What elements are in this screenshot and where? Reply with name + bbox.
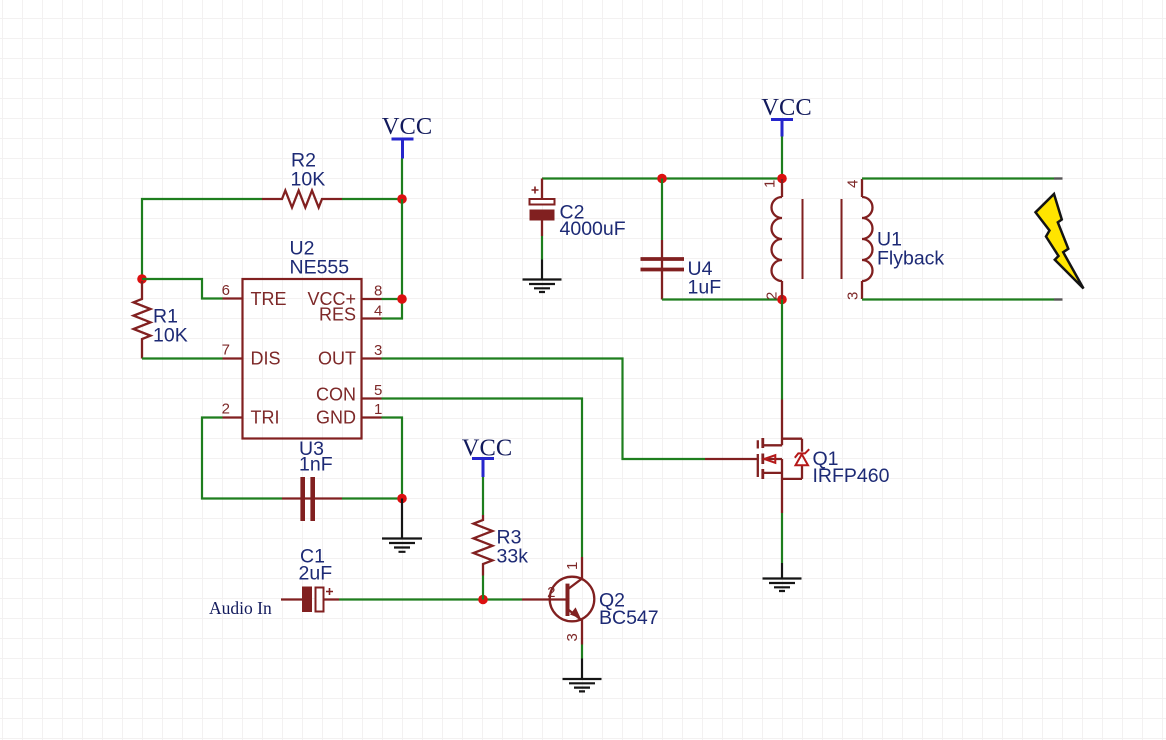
- wire transformer pin2 down to Q1 drain: [781, 300, 783, 400]
- wire from R1 junction to pin TRE: [142, 279, 223, 299]
- svg-text:1nF: 1nF: [299, 454, 333, 476]
- junction dot at VCC / R2: [397, 194, 407, 204]
- svg-text:2uF: 2uF: [299, 563, 333, 585]
- power flag VCC (top left): [382, 113, 432, 159]
- svg-text:4: 4: [845, 180, 862, 188]
- wire C2 bottom to ground: [541, 236, 543, 260]
- wire Q2 emitter to ground: [581, 645, 583, 659]
- svg-text:NE555: NE555: [290, 257, 350, 279]
- wire R3 bottom to base node: [482, 576, 484, 600]
- pin 8 VCC+: [307, 283, 382, 310]
- junction dot at pin 8: [397, 294, 407, 304]
- wire VCC2 stem down to top bus: [781, 137, 783, 179]
- wire R2 right lead to VCC junction: [342, 198, 402, 200]
- svg-text:TRI: TRI: [251, 408, 280, 428]
- svg-text:3: 3: [374, 342, 382, 359]
- wire bottom bus U4 to transformer: [662, 298, 782, 300]
- svg-text:3: 3: [845, 292, 862, 300]
- resistor R1: [134, 281, 151, 359]
- ground symbol below U3: [382, 499, 422, 552]
- capacitor U4: [641, 240, 685, 300]
- junction dot at R3 / base: [478, 595, 488, 605]
- svg-text:VCC: VCC: [761, 94, 811, 121]
- capacitor C1: [281, 587, 339, 613]
- wire OUT to MOSFET gate: [382, 359, 706, 460]
- svg-text:1uF: 1uF: [688, 277, 722, 299]
- wire R1 bottom to pin DIS: [142, 357, 223, 359]
- pin 7 DIS: [222, 342, 281, 369]
- power flag VCC (top right): [761, 94, 811, 137]
- svg-text:OUT: OUT: [318, 349, 356, 369]
- MOSFET Q1 IRFP460: [705, 400, 809, 514]
- wire VCC to R3: [482, 477, 484, 515]
- pin 4 RES: [319, 303, 382, 325]
- capacitor C2: [530, 179, 555, 237]
- ground symbol below Q2: [563, 659, 602, 692]
- junction dot at U4 top: [657, 174, 667, 184]
- wire top bus C2 to transformer: [542, 177, 782, 179]
- wire end tip top: [1054, 177, 1063, 179]
- junction dot at transformer pin 1: [777, 174, 787, 184]
- wire pin4 RES up to VCC junction: [382, 299, 403, 319]
- junction dot at transformer pin 2: [777, 295, 787, 305]
- svg-text:1: 1: [564, 562, 581, 570]
- wire U4 top: [661, 179, 663, 241]
- pin 3 OUT: [318, 342, 382, 369]
- svg-text:1: 1: [762, 180, 779, 188]
- junction dot at U3 / GND: [397, 494, 407, 504]
- svg-text:1: 1: [374, 401, 382, 418]
- svg-text:2: 2: [547, 584, 555, 601]
- wire C1 to base node: [339, 598, 522, 600]
- svg-text:10K: 10K: [153, 325, 188, 347]
- wire TRI to capacitor U3: [202, 418, 282, 499]
- svg-text:5: 5: [374, 382, 382, 399]
- wire pin1 GND down to junction: [382, 418, 403, 499]
- svg-text:8: 8: [374, 283, 382, 300]
- svg-text:GND: GND: [316, 408, 356, 428]
- pin 5 CON: [316, 382, 382, 405]
- svg-text:33k: 33k: [497, 546, 529, 568]
- pin 6 TRE: [222, 282, 287, 309]
- ground symbol below C2: [523, 260, 562, 293]
- wire secondary bottom: [862, 298, 1054, 300]
- transistor Q2 BC547: [522, 557, 594, 645]
- svg-text:4: 4: [374, 303, 382, 320]
- transformer U1 Flyback: [772, 179, 873, 299]
- svg-text:DIS: DIS: [251, 349, 281, 369]
- svg-text:6: 6: [222, 282, 230, 299]
- wire R2 left lead to left rail and down to R1: [142, 199, 262, 279]
- resistor R3: [474, 515, 493, 576]
- svg-text:3: 3: [564, 633, 581, 641]
- svg-text:Audio In: Audio In: [209, 598, 272, 618]
- svg-text:Flyback: Flyback: [877, 248, 944, 270]
- junction dot at R1 top: [137, 274, 147, 284]
- svg-text:10K: 10K: [291, 169, 326, 191]
- pin 1 GND: [316, 401, 382, 428]
- svg-text:IRFP460: IRFP460: [813, 465, 890, 487]
- wire VCC rail down right side: [401, 199, 403, 299]
- IC U2 NE555 body: [243, 279, 362, 439]
- power flag VCC (middle, R3): [462, 435, 512, 478]
- svg-text:4000uF: 4000uF: [560, 218, 626, 240]
- svg-text:TRE: TRE: [251, 289, 287, 309]
- pin 2 TRI: [222, 401, 280, 428]
- svg-text:VCC: VCC: [382, 113, 432, 140]
- wire VCC stem to R2 net: [401, 159, 403, 200]
- svg-text:BC547: BC547: [599, 607, 659, 629]
- svg-text:7: 7: [222, 342, 230, 359]
- wire end tip bottom: [1054, 298, 1063, 300]
- svg-text:RES: RES: [319, 305, 356, 325]
- wire CON down to Q2 collector: [382, 399, 583, 558]
- svg-text:2: 2: [764, 292, 781, 300]
- wire secondary top: [862, 177, 1054, 179]
- wire U3 right to GND junction: [342, 497, 402, 499]
- wire pin8 to VCC rail: [382, 298, 403, 300]
- ground symbol below Q1: [763, 563, 802, 591]
- lightning bolt icon: [1036, 194, 1084, 289]
- svg-text:CON: CON: [316, 385, 356, 405]
- svg-text:2: 2: [222, 401, 230, 418]
- resistor R2: [262, 191, 342, 208]
- wire Q1 source to ground: [781, 513, 783, 563]
- capacitor U3: [282, 477, 342, 521]
